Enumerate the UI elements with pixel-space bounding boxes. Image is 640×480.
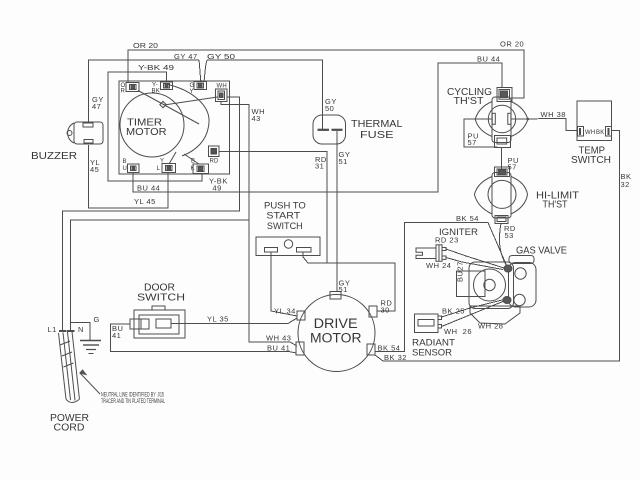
svg-text:Y: Y [190, 89, 194, 95]
svg-text:43: 43 [252, 114, 261, 123]
hi-limit thermostat body [492, 173, 511, 219]
wire Y-BK 49 loop [108, 72, 202, 181]
wire YL 45 buzzer to timer Y/L [89, 145, 168, 208]
wire BU 44 timer to cycling [133, 63, 502, 192]
drive motor upper-right terminal [369, 306, 377, 317]
radiant sensor top stub [438, 316, 442, 320]
gas valve coil outer circle [474, 269, 506, 301]
thermal fuse left contact [318, 129, 330, 131]
hi-limit bottom terminal [495, 216, 508, 224]
neutral note arrow [80, 370, 100, 394]
svg-text:B: B [191, 159, 195, 165]
svg-text:BK: BK [152, 89, 160, 95]
timer terminal WH [216, 89, 228, 102]
gas valve right lobe bottom hole [514, 294, 525, 305]
timer terminal G/Y [194, 82, 207, 90]
buzzer [68, 123, 74, 143]
gas valve coil square [457, 271, 486, 297]
svg-text:U: U [123, 166, 128, 172]
svg-text:TH'ST: TH'ST [454, 95, 485, 107]
timer box [119, 81, 230, 174]
svg-text:GAS VALVE: GAS VALVE [516, 245, 567, 257]
svg-text:R: R [121, 89, 126, 95]
wire YL 34 push-to-start to motor [271, 252, 297, 316]
svg-text:51: 51 [339, 285, 348, 294]
svg-text:RD 23: RD 23 [435, 236, 459, 245]
svg-text:OR 20: OR 20 [133, 41, 158, 50]
push to start left terminal [265, 248, 278, 253]
wire WH 43 timer down to motor [221, 102, 297, 347]
hi-limit thermostat disc [488, 180, 516, 208]
temp switch box [577, 101, 612, 141]
svg-text:START: START [266, 211, 300, 222]
wire BK 54 motor to gas valve [375, 223, 507, 352]
gas valve top tab [509, 256, 534, 264]
drive motor circle [298, 295, 375, 372]
radiant sensor bottom stub [438, 325, 442, 329]
svg-text:FUSE: FUSE [360, 129, 394, 141]
svg-text:MOTOR: MOTOR [126, 126, 167, 138]
wire GY 51 thermal fuse to motor [336, 131, 338, 291]
svg-text:GY 50: GY 50 [207, 52, 235, 61]
door switch inner box [139, 315, 179, 334]
svg-text:TH'ST: TH'ST [543, 199, 568, 211]
svg-text:49: 49 [213, 184, 222, 193]
ground symbol [80, 341, 101, 354]
svg-text:50: 50 [325, 104, 334, 113]
power cord L1 terminal tick [59, 330, 67, 332]
timer terminal RD [209, 146, 220, 157]
gas valve body [469, 262, 514, 309]
svg-text:YL 35: YL 35 [207, 315, 229, 324]
push to start right terminal [297, 248, 312, 253]
timer contact line B [164, 97, 218, 105]
timer contact line C [169, 152, 176, 164]
svg-text:MOTOR: MOTOR [310, 330, 362, 345]
svg-text:BU 41: BU 41 [267, 344, 290, 353]
svg-text:SWITCH: SWITCH [137, 292, 185, 304]
wire OR 20 top run [128, 50, 524, 98]
svg-text:Y: Y [160, 159, 164, 165]
timer terminal Y/L [162, 164, 176, 173]
svg-text:BU 44: BU 44 [477, 55, 500, 64]
igniter body divider [438, 245, 440, 261]
svg-text:51: 51 [339, 157, 348, 166]
radiant sensor box [415, 314, 439, 333]
svg-text:57: 57 [508, 163, 517, 172]
svg-text:BK 54: BK 54 [456, 214, 479, 223]
svg-text:WH: WH [217, 84, 227, 90]
wire RD 53 hi-limit to gas valve [499, 224, 507, 267]
svg-text:WH 26: WH 26 [444, 327, 472, 336]
svg-text:TRACER AND TIN PLATED TERMINAL: TRACER AND TIN PLATED TERMINAL [101, 399, 165, 405]
svg-text:30: 30 [381, 306, 390, 315]
drive motor lower-right terminal [367, 344, 375, 355]
gas valve bottom tab [470, 306, 520, 324]
wire YL 35 door switch to motor [171, 318, 297, 324]
svg-text:BUZZER: BUZZER [31, 150, 77, 162]
svg-text:BU27: BU27 [456, 261, 465, 282]
igniter fork [416, 248, 436, 259]
svg-text:31: 31 [315, 162, 324, 171]
svg-text:YL 45: YL 45 [134, 197, 156, 206]
svg-text:GY 47: GY 47 [174, 52, 198, 61]
wire GY 47 left run to buzzer [89, 60, 200, 122]
cycling thermostat right contact bar [508, 113, 511, 124]
svg-text:47: 47 [92, 102, 101, 111]
wire igniter RD 23 to valve [446, 249, 504, 268]
igniter stub upper [442, 248, 446, 251]
gas valve lower terminal blob [503, 297, 511, 304]
wire BK 25 radiant sensor to valve [442, 299, 507, 317]
svg-text:G: G [94, 315, 100, 324]
wire RD 31 timer RD to push-to-start [219, 152, 327, 264]
door switch plug divider [140, 319, 142, 329]
svg-text:RD: RD [210, 159, 220, 165]
svg-text:WH 43: WH 43 [266, 334, 291, 343]
svg-text:L1: L1 [48, 325, 57, 334]
wire GY 50 rise from G/Y terminal [204, 60, 207, 82]
svg-text:YL 34: YL 34 [274, 307, 296, 316]
cycling thermostat left wing [475, 102, 492, 137]
radiant sensor inner rect [418, 320, 434, 327]
svg-text:L: L [157, 166, 161, 172]
svg-text:WH 28: WH 28 [478, 322, 503, 331]
svg-text:Y-BK 49: Y-BK 49 [138, 63, 174, 72]
temp switch BK terminal [606, 127, 612, 137]
cycling thermostat left contact bar [492, 113, 495, 124]
power cord bundle [59, 332, 80, 403]
svg-text:WH: WH [585, 130, 595, 136]
svg-text:53: 53 [505, 231, 514, 240]
igniter stub lower [442, 256, 446, 259]
timer contact line D [184, 154, 199, 164]
door switch contact block [156, 319, 171, 328]
svg-text:SWITCH: SWITCH [267, 221, 303, 232]
timer contact line A [138, 91, 199, 125]
timer motor circle [120, 93, 184, 157]
push to start button circle [284, 240, 292, 248]
thermal fuse right contact [332, 129, 343, 131]
junction dot WH38 [526, 118, 529, 121]
drive motor top terminal [330, 292, 341, 300]
svg-text:BK: BK [596, 130, 604, 136]
svg-text:BK 32: BK 32 [384, 353, 407, 362]
svg-text:57: 57 [468, 138, 477, 147]
temp switch WH terminal [578, 127, 584, 137]
wire GY 50 run to thermal fuse [207, 60, 323, 129]
wire BU 41 door switch to motor [111, 324, 297, 353]
timer terminal O/R [126, 83, 139, 92]
wire N to ground bond [71, 323, 91, 340]
gas valve coil inner circle [484, 279, 495, 290]
svg-text:32: 32 [621, 180, 630, 189]
svg-text:N: N [78, 325, 84, 334]
gas valve right lobe [509, 263, 537, 308]
svg-text:BU 44: BU 44 [137, 184, 160, 193]
wire igniter WH 24 to valve [446, 258, 503, 270]
wire WH 38 cycling to temp switch [511, 119, 578, 131]
timer cam lobe [166, 84, 209, 156]
hi-limit thermostat right wing [511, 177, 528, 215]
cycling thermostat disc [488, 105, 515, 132]
wire N to WH43 junction [71, 220, 250, 330]
cycling thermostat body [492, 97, 511, 143]
cycling thermostat right wing [511, 102, 528, 137]
door switch top tab [152, 306, 165, 310]
wire WH 26 radiant sensor to valve [442, 301, 505, 327]
hi-limit top terminal [495, 167, 510, 177]
svg-text:CORD: CORD [54, 422, 85, 434]
svg-text:K: K [191, 166, 195, 172]
door switch left plug [130, 319, 149, 329]
igniter body [436, 245, 442, 261]
timer terminal B/K [193, 164, 209, 174]
drive motor lower-left terminal [296, 342, 304, 355]
hi-limit thermostat left wing [474, 177, 492, 215]
power cord N terminal tick [67, 330, 75, 332]
thermal fuse body [313, 115, 346, 144]
push to start switch box [256, 237, 320, 256]
gas valve upper terminal blob [504, 265, 512, 272]
svg-text:WH 38: WH 38 [541, 110, 566, 119]
svg-text:OR 20: OR 20 [500, 40, 524, 49]
svg-text:NEUTRAL LINE IDENTIFIED BY .01: NEUTRAL LINE IDENTIFIED BY .015 [101, 393, 164, 399]
wire PU 57 cycling to hi-limit [501, 148, 503, 171]
svg-text:45: 45 [90, 165, 99, 174]
svg-text:41: 41 [112, 331, 121, 340]
wire RD 30 push-to-start to motor [303, 252, 395, 311]
svg-text:B: B [123, 159, 127, 165]
wire GY 47 dip into G/Y terminal [199, 60, 201, 82]
wire PU 57 cycling left contact wrap [464, 119, 498, 147]
svg-text:DRIVE: DRIVE [314, 316, 358, 331]
cycling thermostat top terminal [497, 88, 512, 102]
svg-text:SWITCH: SWITCH [571, 154, 611, 166]
timer cam follower diamond [160, 101, 166, 107]
drive motor upper-left terminal [297, 311, 305, 320]
wire BK 32 temp switch to motor [375, 131, 620, 362]
svg-text:BK 54: BK 54 [378, 344, 401, 353]
door switch outer box [134, 310, 185, 338]
gas valve right lobe top hole [515, 268, 526, 279]
svg-text:SENSOR: SENSOR [412, 348, 452, 359]
svg-text:WH 24: WH 24 [426, 261, 451, 270]
svg-text:BK 25: BK 25 [442, 307, 465, 316]
wire WH terminal right to L1 [63, 97, 240, 330]
timer terminal B/U [128, 164, 140, 173]
cycling thermostat bottom terminal [495, 136, 511, 148]
timer terminal Y-BK [161, 82, 173, 90]
